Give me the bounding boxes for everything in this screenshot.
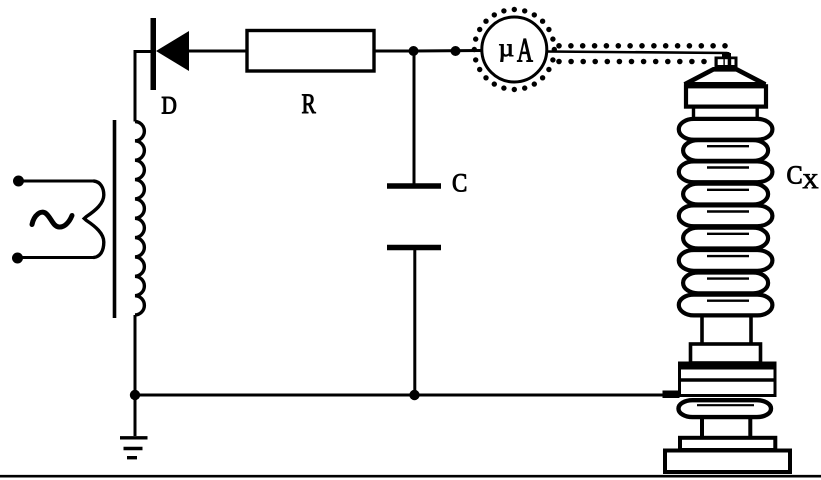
bushing Cx dome — [685, 69, 766, 84]
node: capacitor ground junction — [409, 390, 419, 400]
wire — [18, 256, 95, 259]
wire: resistor to node — [374, 50, 413, 53]
shield dotted row upper — [556, 43, 728, 49]
transformer T1 secondary winding — [135, 122, 144, 316]
bushing Cx shed 7 — [679, 250, 773, 271]
wire: secondary bottom to ground bus — [134, 315, 137, 395]
wire: lead drop to bushing terminal — [725, 52, 730, 58]
bushing Cx shed 2 — [683, 140, 768, 161]
bushing Cx pedestal legs — [700, 419, 704, 437]
bushing Cx shed 1 — [679, 119, 773, 140]
AC source sine symbol — [32, 212, 72, 227]
transformer T1 core — [113, 120, 117, 318]
node: ground bus left junction — [130, 390, 140, 400]
wire: diode to resistor — [189, 50, 247, 53]
wire: node down to capacitor — [413, 51, 416, 184]
capacitor C bottom plate — [387, 245, 441, 251]
node: AC input terminal bottom — [12, 253, 23, 264]
microammeter U1 body — [482, 17, 547, 82]
wire — [19, 180, 95, 183]
bushing Cx head — [686, 86, 766, 106]
label R — [302, 95, 316, 114]
bushing Cx lower cylinder — [700, 317, 704, 346]
shield dotted row lower — [556, 59, 707, 65]
bushing Cx shed 5 — [679, 205, 773, 226]
label D — [162, 97, 176, 114]
wire: diode anode to winding — [135, 52, 151, 122]
microammeter shield dotted ring — [472, 7, 557, 92]
node: meter input terminal — [451, 46, 461, 56]
resistor R — [247, 31, 374, 72]
bushing Cx shed 8 — [683, 273, 768, 294]
label uA — [499, 44, 513, 61]
ground symbol — [120, 436, 148, 439]
capacitor C top plate — [387, 183, 441, 189]
bushing Cx flange — [680, 363, 776, 396]
wire: node to meter terminal — [414, 49, 483, 53]
wire: junction to ground symbol — [134, 395, 137, 436]
bottom border line — [0, 475, 821, 478]
transformer T1 primary winding — [84, 181, 104, 258]
wire: meter to bushing (shielded lead) — [547, 52, 728, 54]
bushing Cx pedestal step — [680, 438, 775, 450]
bushing Cx shed 9 — [679, 295, 773, 316]
ground bus wire — [135, 394, 663, 397]
bushing Cx terminal cap — [722, 53, 731, 58]
bushing Cx shed 6 — [683, 228, 768, 249]
label Cx — [788, 166, 802, 184]
bushing Cx base — [665, 451, 790, 473]
diode D triangle — [156, 31, 189, 71]
wire: capacitor to ground bus — [413, 250, 416, 395]
bushing Cx lower shed — [679, 400, 772, 417]
label C — [453, 174, 466, 192]
bushing Cx ground terminal pad — [663, 391, 680, 399]
bushing Cx shed 4 — [683, 184, 768, 205]
node: AC input terminal top — [13, 176, 24, 187]
bushing Cx shed 3 — [679, 161, 773, 182]
node: R-C junction — [409, 46, 419, 56]
bushing Cx neck legs — [692, 108, 695, 121]
diode D cathode bar — [151, 18, 157, 90]
bushing Cx lower block — [691, 344, 761, 363]
